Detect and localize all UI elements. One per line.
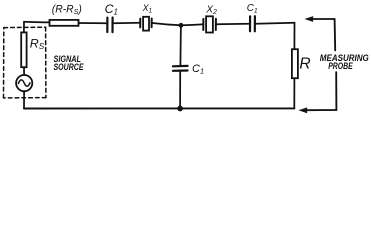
crystal X1 (140, 17, 152, 31)
wire RS bottom to source (23, 67, 25, 75)
capacitor C1 (shunt) (173, 65, 188, 68)
svg-text:PROBE: PROBE (328, 61, 353, 72)
wire R bottom to rail (293, 78, 295, 108)
wire top rail left (24, 21, 50, 24)
resistor RS (21, 32, 26, 67)
junction dot A (179, 23, 184, 28)
resistor (R-RS) (50, 20, 79, 26)
shunt branch wire from node A (179, 25, 182, 66)
svg-text:R: R (299, 55, 310, 72)
resistor R (292, 49, 298, 78)
crystal X2 (203, 16, 216, 32)
wire (79, 22, 107, 24)
measuring probe lower arrow (335, 72, 337, 110)
svg-text:SOURCE: SOURCE (54, 62, 84, 73)
junction dot bottom (177, 106, 183, 112)
wire (217, 23, 250, 25)
measuring probe upper arrow (312, 18, 335, 20)
wire right side down (293, 23, 295, 50)
wire to right corner (256, 23, 295, 24)
wire with junction node A (152, 23, 203, 25)
capacitor C1 (series right) (249, 16, 251, 31)
sine wave (18, 80, 30, 86)
wire bottom rail (24, 107, 294, 109)
wire shunt lower (179, 71, 181, 109)
dashed box (signal source enclosure) (4, 27, 46, 98)
AC source G1 (16, 75, 32, 91)
wire stub RS top to rail (23, 22, 25, 33)
wire (113, 22, 140, 24)
wire source bottom down (23, 91, 25, 108)
capacitor C1 (series left) (106, 18, 108, 32)
